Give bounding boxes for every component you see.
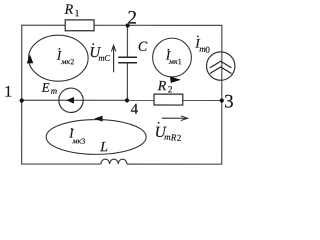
mesh current loop I_mk3 (wide ellipse with left arrow at top): [46, 116, 146, 155]
svg-text:C: C: [138, 40, 148, 55]
current source I_m0 (circle with double chevron pointing up): [207, 52, 235, 80]
mesh current loop I_mk1 (circle with right arrow at bottom): [153, 38, 192, 83]
svg-text:R: R: [64, 3, 74, 18]
svg-text:мк: мк: [168, 57, 178, 66]
label I_mk2: [56, 47, 74, 66]
node 1 junction dot: [20, 98, 24, 102]
wire: outer loop (left side 1-top, top side through R1 via node 2, right side down to node 3, bottom side with gap for coil L): [22, 25, 222, 164]
wire: middle horizontal branch node 1 - E_m - node 4 - R2 - node 3: [22, 99, 222, 101]
svg-text:1: 1: [4, 84, 12, 101]
label I_m0: [194, 35, 210, 54]
mesh current loop I_mk2 (ellipse with up arrow on left): [27, 35, 88, 81]
label R1: [64, 3, 80, 20]
node 2 junction dot: [126, 23, 130, 27]
svg-text:3: 3: [81, 137, 85, 146]
svg-text:m: m: [51, 86, 58, 96]
capacitor C: [118, 57, 137, 63]
svg-text:мк: мк: [60, 57, 70, 66]
wire: capacitor branch lower segment to node 4: [126, 63, 128, 100]
label R2: [157, 79, 173, 95]
wire: capacitor branch upper segment from node 2: [126, 25, 128, 57]
voltage source E_m (circle with left-pointing arrow): [59, 88, 83, 112]
svg-text:4: 4: [131, 102, 139, 118]
label U_mR2: [155, 122, 182, 143]
resistor R2: [154, 94, 183, 105]
svg-text:2: 2: [70, 57, 74, 66]
voltage arrow U_mC (pointing up beside capacitor): [111, 45, 115, 72]
label U_mC: [89, 43, 110, 63]
svg-text:1: 1: [75, 9, 80, 19]
svg-text:1: 1: [178, 57, 182, 66]
label I_mk1: [165, 48, 182, 67]
label E_m: [41, 80, 58, 96]
svg-text:C: C: [104, 53, 110, 63]
voltage arrow U_mR2 (pointing right below R2): [162, 116, 188, 121]
svg-text:2: 2: [177, 133, 182, 143]
resistor R1: [65, 20, 94, 31]
svg-text:2: 2: [168, 85, 173, 95]
svg-text:R: R: [157, 79, 167, 94]
svg-text:2: 2: [128, 8, 138, 29]
svg-text:мк: мк: [71, 136, 81, 145]
svg-text:3: 3: [224, 91, 234, 112]
svg-text:0: 0: [205, 45, 210, 55]
node 4 junction dot: [125, 98, 129, 102]
svg-text:R: R: [170, 132, 177, 142]
svg-text:E: E: [41, 80, 50, 95]
inductor L: [101, 159, 127, 164]
node 3 junction dot: [220, 98, 224, 102]
svg-text:L: L: [99, 140, 108, 155]
label I_mk3: [68, 126, 85, 146]
